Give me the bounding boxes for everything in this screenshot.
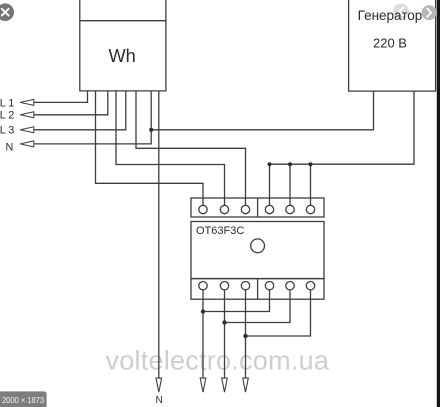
svg-text:L 1: L 1 [0,97,14,109]
svg-text:OT63F3C: OT63F3C [196,225,244,237]
svg-text:N: N [6,141,14,153]
svg-text:220 В: 220 В [373,36,407,51]
svg-text:Wh: Wh [109,46,136,66]
svg-text:N: N [156,395,163,406]
svg-text:2000 × 1873: 2000 × 1873 [2,396,44,405]
svg-text:Генератор: Генератор [358,8,423,23]
svg-text:L 3: L 3 [0,125,14,137]
svg-text:L 2: L 2 [0,110,14,122]
svg-text:voltelectro.com.ua: voltelectro.com.ua [106,346,330,376]
